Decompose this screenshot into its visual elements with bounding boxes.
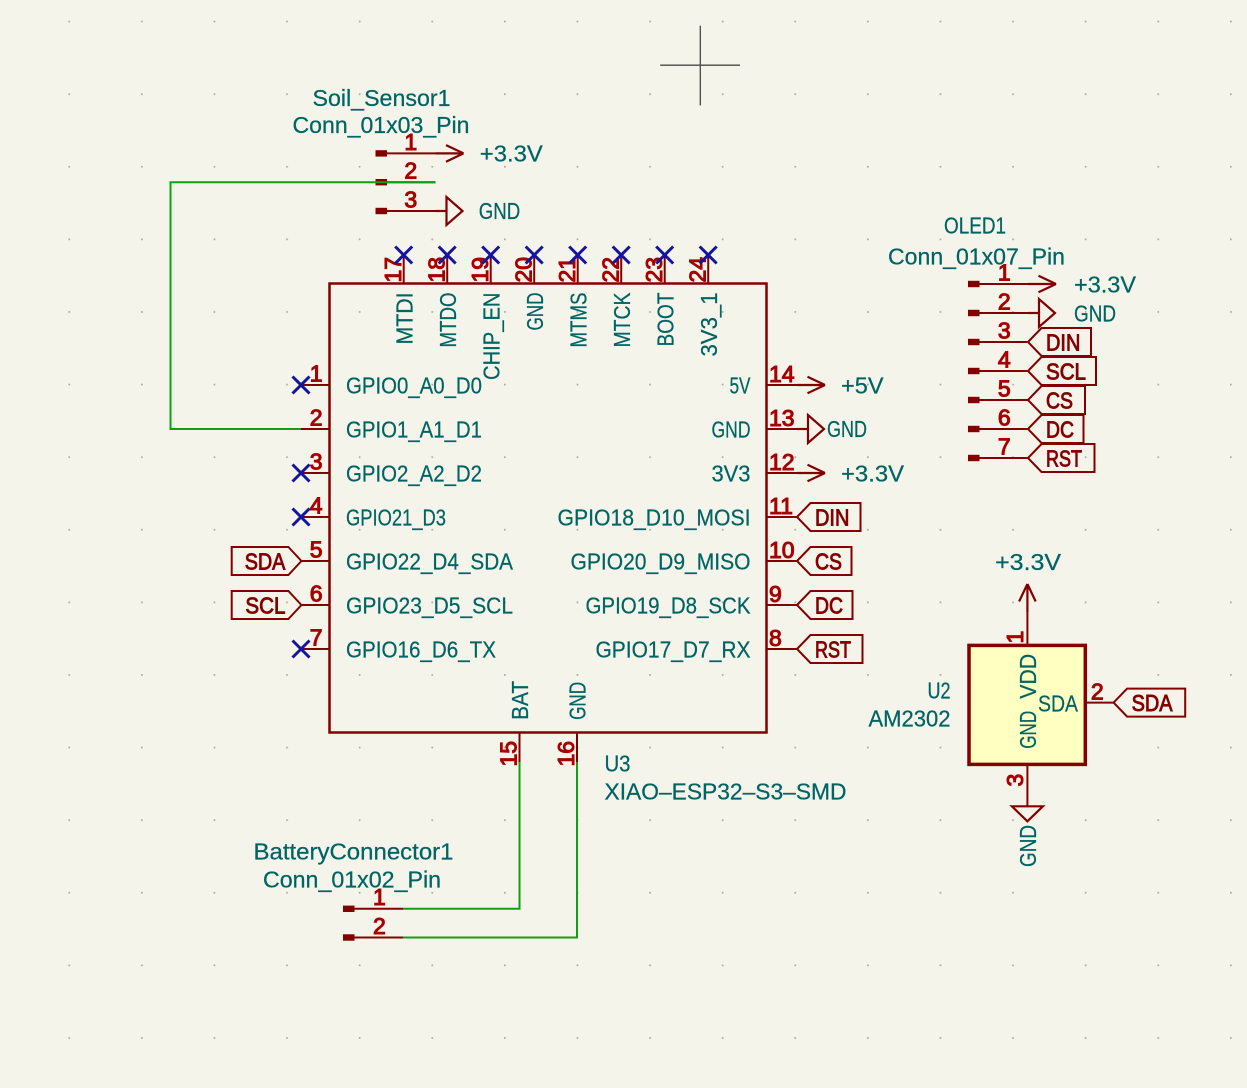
svg-text:DIN: DIN [1046, 329, 1080, 355]
svg-text:19: 19 [467, 257, 493, 283]
svg-text:10: 10 [769, 537, 795, 563]
svg-text:1: 1 [373, 884, 386, 910]
U3 reference and value labels [605, 751, 847, 805]
U2 pin 3 GND [1002, 711, 1041, 807]
connector Soil_Sensor1 reference and value labels [293, 85, 470, 138]
cursor crosshair [660, 26, 740, 106]
svg-text:GPIO23_D5_SCL: GPIO23_D5_SCL [346, 593, 513, 619]
svg-text:15: 15 [495, 741, 521, 767]
svg-text:22: 22 [598, 257, 624, 283]
U2 pin 2 SDA [1038, 678, 1114, 716]
U3 pin 20 GND [511, 255, 548, 331]
svg-text:U2: U2 [928, 678, 951, 704]
U3 pin 9 GPIO19_D8_SCK [586, 581, 798, 619]
svg-text:24: 24 [685, 257, 711, 283]
svg-text:13: 13 [769, 405, 795, 431]
net label DIN on OLED1 pin 3 [1028, 328, 1091, 356]
svg-text:1: 1 [404, 129, 417, 155]
svg-text:3: 3 [998, 317, 1011, 343]
svg-text:Conn_01x02_Pin: Conn_01x02_Pin [263, 867, 441, 893]
U3 pin 21 MTMS [554, 255, 591, 348]
svg-text:GPIO0_A0_D0: GPIO0_A0_D0 [346, 373, 482, 399]
svg-text:Soil_Sensor1: Soil_Sensor1 [313, 85, 451, 111]
U3 pin 16 GND [553, 682, 591, 767]
svg-text:MTCK: MTCK [609, 292, 635, 347]
U3 pin 4 GPIO21_D3 [301, 492, 446, 530]
svg-text:GND: GND [712, 417, 751, 443]
U2 pin 1 VDD [1002, 612, 1041, 699]
svg-text:GND: GND [522, 293, 548, 331]
OLED1 pin 7 [968, 433, 1028, 461]
no-connect X on U3 pin 19 [482, 247, 499, 264]
svg-text:GND: GND [1074, 300, 1116, 326]
svg-text:20: 20 [511, 257, 537, 283]
U3 pin 5 GPIO22_D4_SDA [301, 536, 513, 574]
svg-text:17: 17 [380, 257, 406, 283]
net label DIN on U3 pin 11 [797, 503, 861, 531]
svg-text:5V: 5V [730, 373, 751, 399]
svg-text:BOOT: BOOT [652, 293, 678, 347]
U3 pin 1 GPIO0_A0_D0 [301, 360, 482, 398]
svg-text:Conn_01x03_Pin: Conn_01x03_Pin [293, 112, 470, 138]
no-connect X on U3 pin 3 [293, 465, 310, 482]
no-connect X on U3 pin 22 [613, 247, 630, 264]
U3 pin 15 BAT [495, 681, 533, 767]
U3 pin 14 5V [730, 361, 798, 399]
svg-text:GPIO20_D9_MISO: GPIO20_D9_MISO [571, 549, 751, 575]
svg-text:MTMS: MTMS [565, 293, 591, 348]
U3 pin 2 GPIO1_A1_D1 [301, 404, 482, 442]
OLED1 pin 2 [968, 288, 1028, 316]
svg-text:21: 21 [554, 257, 580, 283]
Soil_Sensor1 pin 1 [376, 129, 436, 157]
svg-text:MTDI: MTDI [391, 293, 417, 345]
no-connect X on U3 pin 24 [700, 247, 717, 264]
svg-text:RST: RST [1046, 445, 1082, 471]
svg-text:3V3_1: 3V3_1 [696, 293, 722, 357]
svg-text:GPIO18_D10_MOSI: GPIO18_D10_MOSI [558, 505, 751, 531]
OLED1 pin 4 [968, 346, 1028, 374]
svg-text:3: 3 [310, 448, 323, 474]
U3 pin 18 MTDO [424, 255, 461, 348]
svg-text:SDA: SDA [1132, 690, 1173, 716]
power symbol +5V on U3 pin 14 [797, 373, 884, 399]
ground symbol GND on Soil_Sensor1 pin 3 [436, 197, 521, 225]
power symbol +3.3V on OLED1 pin 1 [1028, 271, 1136, 297]
svg-text:2: 2 [1091, 678, 1104, 704]
svg-text:GPIO21_D3: GPIO21_D3 [346, 505, 446, 531]
svg-text:7: 7 [998, 433, 1011, 459]
svg-text:SDA: SDA [245, 548, 286, 574]
no-connect X on U3 pin 17 [395, 247, 412, 264]
svg-text:GPIO1_A1_D1: GPIO1_A1_D1 [346, 417, 482, 443]
net label DC on OLED1 pin 6 [1028, 415, 1084, 443]
svg-text:+5V: +5V [841, 373, 884, 399]
net label DC on U3 pin 9 [797, 591, 853, 619]
svg-text:XIAO–ESP32–S3–SMD: XIAO–ESP32–S3–SMD [605, 779, 847, 805]
power symbol +3.3V on U3 pin 12 [797, 461, 904, 487]
net label RST on U3 pin 8 [797, 635, 863, 663]
svg-text:SDA: SDA [1038, 690, 1078, 716]
U3 pin 10 GPIO20_D9_MISO [571, 537, 798, 575]
net label SDA on U3 pin 5 [232, 547, 302, 575]
no-connect X on U3 pin 4 [293, 509, 310, 526]
ground symbol GND on OLED1 pin 2 [1028, 299, 1116, 327]
svg-text:GPIO19_D8_SCK: GPIO19_D8_SCK [586, 593, 751, 619]
svg-text:Conn_01x07_Pin: Conn_01x07_Pin [888, 244, 1065, 270]
U3 pin 23 BOOT [641, 255, 678, 347]
wire Soil_Sensor1 pin 2 to U3 GPIO1_A1_D1 [171, 182, 436, 429]
svg-text:9: 9 [769, 581, 782, 607]
svg-text:GPIO17_D7_RX: GPIO17_D7_RX [596, 637, 751, 663]
net label CS on U3 pin 10 [797, 547, 852, 575]
svg-text:1: 1 [310, 360, 323, 386]
U3 pin 17 MTDI [380, 255, 417, 345]
no-connect X on U3 pin 18 [439, 247, 456, 264]
svg-text:6: 6 [310, 580, 323, 606]
svg-text:GPIO2_A2_D2: GPIO2_A2_D2 [346, 461, 482, 487]
svg-text:6: 6 [998, 404, 1011, 430]
U3 pin 22 MTCK [598, 255, 635, 348]
U3 pin 11 GPIO18_D10_MOSI [558, 493, 798, 531]
svg-text:4: 4 [310, 492, 323, 518]
U3 pin 24 3V3_1 [685, 255, 722, 357]
svg-text:14: 14 [769, 361, 795, 387]
svg-text:8: 8 [769, 625, 782, 651]
connector BatteryConnector1 reference and value labels [254, 839, 454, 893]
svg-text:12: 12 [769, 449, 795, 475]
svg-text:CS: CS [815, 548, 842, 574]
svg-text:1: 1 [998, 259, 1011, 285]
svg-text:CHIP_EN: CHIP_EN [478, 293, 504, 381]
wire BatteryConnector1 pin 2 to U3 GND pin 16 [403, 762, 577, 938]
power symbol +3.3V on U2 pin 1 [995, 549, 1061, 612]
svg-text:11: 11 [769, 493, 793, 519]
svg-text:2: 2 [310, 404, 323, 430]
svg-text:GND: GND [565, 682, 591, 720]
no-connect X on U3 pin 1 [293, 377, 310, 394]
svg-text:23: 23 [641, 257, 667, 283]
svg-text:3: 3 [1002, 774, 1028, 787]
U3 pin 13 GND [712, 405, 798, 443]
svg-text:GPIO16_D6_TX: GPIO16_D6_TX [346, 637, 496, 663]
svg-text:5: 5 [310, 536, 323, 562]
net label SCL on U3 pin 6 [232, 591, 302, 619]
power symbol +3.3V on Soil_Sensor1 pin 1 [436, 140, 544, 166]
net label RST on OLED1 pin 7 [1028, 444, 1095, 472]
svg-text:4: 4 [998, 346, 1011, 372]
IC U3 XIAO-ESP32-S3-SMD body [330, 284, 767, 733]
U2 reference and value labels [869, 678, 951, 732]
OLED1 pin 1 [968, 259, 1028, 287]
OLED1 pin 5 [968, 375, 1028, 403]
svg-text:1: 1 [1002, 631, 1028, 644]
no-connect X on U3 pin 21 [569, 247, 586, 264]
net label SDA on U2 pin 2 [1114, 689, 1186, 717]
svg-text:AM2302: AM2302 [869, 706, 951, 732]
svg-text:SCL: SCL [1046, 358, 1086, 384]
wire BatteryConnector1 pin 1 to U3 BAT pin 15 [403, 762, 520, 909]
svg-text:+3.3V: +3.3V [841, 461, 904, 487]
svg-text:U3: U3 [605, 751, 631, 777]
svg-text:GND: GND [1015, 825, 1041, 867]
svg-text:3: 3 [404, 186, 417, 212]
svg-text:GND: GND [827, 416, 867, 442]
svg-text:18: 18 [424, 257, 450, 283]
svg-text:MTDO: MTDO [435, 293, 461, 348]
svg-text:DC: DC [815, 592, 843, 618]
svg-text:CS: CS [1046, 387, 1073, 413]
U3 pin 12 3V3 [712, 449, 798, 487]
U3 pin 19 CHIP_EN [467, 255, 504, 380]
svg-text:DIN: DIN [815, 504, 849, 530]
svg-text:+3.3V: +3.3V [995, 549, 1061, 575]
Soil_Sensor1 pin 2 [376, 158, 436, 186]
svg-text:GND: GND [479, 198, 521, 224]
OLED1 pin 6 [968, 404, 1028, 432]
svg-text:2: 2 [998, 288, 1011, 314]
Soil_Sensor1 pin 3 [376, 186, 436, 214]
svg-text:DC: DC [1046, 416, 1074, 442]
svg-text:2: 2 [404, 158, 417, 184]
svg-text:+3.3V: +3.3V [480, 140, 543, 166]
svg-text:5: 5 [998, 375, 1011, 401]
svg-text:3V3: 3V3 [712, 461, 751, 487]
sensor U2 AM2302 body [969, 645, 1085, 764]
svg-text:SCL: SCL [245, 592, 285, 618]
OLED1 pin 3 [968, 317, 1028, 345]
svg-text:OLED1: OLED1 [944, 213, 1006, 239]
ground symbol GND on U3 pin 13 [797, 415, 867, 443]
svg-text:BAT: BAT [507, 681, 533, 720]
no-connect X on U3 pin 23 [656, 247, 673, 264]
svg-text:GPIO22_D4_SDA: GPIO22_D4_SDA [346, 549, 513, 575]
svg-text:16: 16 [553, 741, 579, 767]
no-connect X on U3 pin 20 [526, 247, 543, 264]
U3 pin 6 GPIO23_D5_SCL [301, 580, 513, 618]
svg-text:GND: GND [1015, 711, 1041, 749]
svg-text:+3.3V: +3.3V [1074, 271, 1136, 297]
net label CS on OLED1 pin 5 [1028, 386, 1085, 414]
svg-text:2: 2 [373, 913, 386, 939]
U3 pin 8 GPIO17_D7_RX [596, 625, 798, 663]
BatteryConnector1 pin 2 [343, 913, 403, 941]
BatteryConnector1 pin 1 [343, 884, 403, 912]
connector OLED1 reference and value labels [888, 213, 1065, 270]
no-connect X on U3 pin 7 [293, 641, 310, 658]
svg-text:RST: RST [815, 636, 851, 662]
U3 pin 7 GPIO16_D6_TX [301, 624, 496, 662]
svg-text:7: 7 [310, 624, 323, 650]
ground symbol GND on U2 pin 3 [1012, 806, 1043, 867]
net label SCL on OLED1 pin 4 [1028, 357, 1096, 385]
U3 pin 3 GPIO2_A2_D2 [301, 448, 482, 486]
svg-text:BatteryConnector1: BatteryConnector1 [254, 839, 454, 865]
